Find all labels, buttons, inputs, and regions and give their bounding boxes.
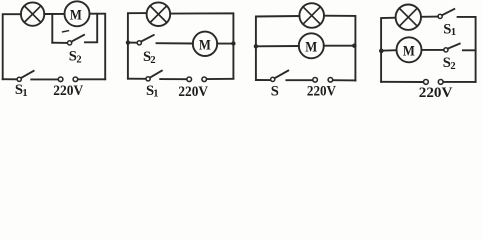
- wire: circuit1 left vertical + top wire to lamp: [3, 14, 21, 79]
- wire: middle branch stub, circuit2: [128, 42, 137, 44]
- wire: branch right + vertical up to top wire, circuit1: [85, 14, 97, 43]
- switch S2 (terminal + lever), circuit4: [444, 44, 460, 52]
- motor U2: [193, 32, 217, 56]
- svg-text:2: 2: [76, 55, 81, 66]
- wire: motor to switch S2, circuit4: [422, 49, 444, 51]
- battery terminal left (220V), circuit4: [424, 80, 429, 85]
- wire: lamp to top-right corner + right vertical, circuit3: [324, 16, 355, 81]
- switch S1 (terminal + lever), circuit1: [17, 71, 33, 82]
- wire: circuit1 bottom-left segment: [3, 78, 17, 80]
- svg-text:2: 2: [450, 61, 455, 72]
- svg-text:2: 2: [150, 55, 155, 66]
- battery terminal right (220V), circuit1: [73, 77, 78, 82]
- wire: circuit2 left vertical + top wire to lamp: [128, 13, 147, 79]
- wire: terminal to bottom-right corner, circuit3: [333, 79, 355, 81]
- motor U3: [299, 33, 324, 58]
- battery terminal right (220V), circuit3: [328, 78, 333, 83]
- wire: motor to right vertical, circuit3: [324, 45, 356, 47]
- svg-text:M: M: [305, 40, 317, 56]
- wire: terminal to bottom-right corner, circuit2: [207, 78, 233, 80]
- svg-text:M: M: [199, 38, 211, 54]
- node D: junction dot left, circuit3: [254, 44, 258, 48]
- battery terminal left (220V), circuit1: [58, 77, 63, 82]
- node F: junction dot left, circuit4: [379, 49, 384, 54]
- lamp L1 (circle with X): [21, 2, 44, 25]
- wire: S1 to battery terminal, circuit2: [160, 78, 186, 80]
- switch S2 (terminal + lever), circuit1: [63, 31, 84, 45]
- wire: S2 to right vertical, circuit4: [463, 49, 476, 51]
- wire: S1 to top-right corner + right vertical, circuit4: [458, 17, 476, 82]
- switch S1 (terminal + lever), circuit2: [146, 71, 162, 81]
- svg-text:220V: 220V: [178, 84, 208, 100]
- node E: junction dot right, circuit3: [352, 44, 356, 48]
- wire: circuit4 left vertical + top wire to lamp: [381, 18, 395, 82]
- svg-text:1: 1: [22, 88, 27, 99]
- battery terminal right (220V), circuit2: [202, 77, 207, 82]
- battery terminal left (220V), circuit3: [313, 78, 318, 83]
- node C: junction dot right, circuit2: [231, 41, 235, 45]
- wire: circuit3 bottom-left segment: [256, 79, 270, 81]
- lamp L2 (circle with X): [147, 2, 171, 26]
- battery terminal left (220V), circuit2: [187, 77, 192, 82]
- wire: lamp to top-right corner + right vertical, circuit2: [170, 13, 233, 78]
- switch S1 (terminal + lever), circuit4: [438, 9, 454, 19]
- wire: lamp to switch S1, circuit4: [421, 16, 438, 18]
- wire: lamp to motor, circuit1 top: [44, 13, 64, 15]
- svg-text:S: S: [271, 84, 279, 100]
- wire: motor to top-right corner + right vertical, circuit1: [90, 14, 106, 80]
- svg-text:220V: 220V: [419, 85, 453, 100]
- svg-text:M: M: [403, 44, 415, 60]
- wire: S1 to battery terminal, circuit1: [31, 78, 58, 80]
- switch S (terminal + lever), circuit3: [271, 71, 289, 82]
- motor U1: [65, 1, 90, 26]
- lamp L3 (circle with X): [299, 3, 324, 28]
- lamp L4 (circle with X): [396, 5, 421, 30]
- wire: S to battery terminal, circuit3: [286, 79, 312, 81]
- wire: terminal to bottom-right corner, circuit1: [78, 78, 105, 80]
- svg-text:220V: 220V: [307, 84, 336, 100]
- wire: S2 to motor, circuit2: [157, 42, 193, 44]
- motor U4: [397, 37, 422, 62]
- svg-text:M: M: [70, 8, 82, 24]
- svg-text:1: 1: [153, 88, 158, 99]
- wire: circuit2 bottom-left segment: [128, 78, 146, 80]
- wire: motor to right vertical, circuit2: [217, 43, 233, 45]
- wire: circuit4 bottom-left segment: [381, 81, 423, 83]
- node B: junction dot left, circuit2: [126, 40, 130, 44]
- svg-text:1: 1: [451, 27, 456, 38]
- battery terminal right (220V), circuit4: [438, 80, 443, 85]
- wire: branch left stub, circuit1: [52, 42, 66, 44]
- wire: circuit3 left vertical + top wire to lamp: [256, 16, 299, 80]
- svg-text:220V: 220V: [53, 83, 83, 99]
- wire: middle branch left, circuit4: [381, 49, 396, 52]
- wire: terminal to bottom-right corner, circuit4: [444, 81, 476, 83]
- wire: middle branch left, circuit3: [256, 45, 299, 47]
- switch S2 (terminal + lever), circuit2: [137, 35, 154, 45]
- node A: branch junction vertical, circuit1: [51, 14, 53, 43]
